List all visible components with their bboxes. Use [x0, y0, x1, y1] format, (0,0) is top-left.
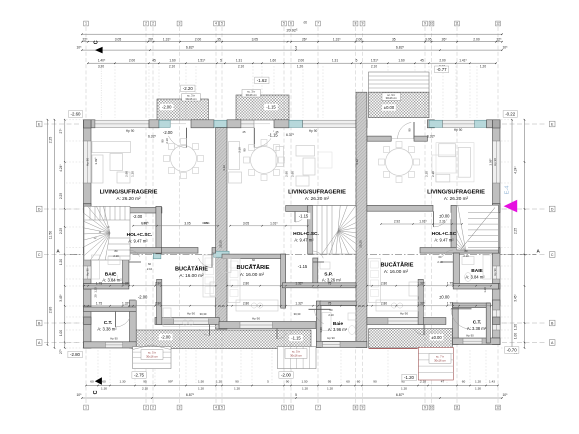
svg-text:1.20: 1.20	[234, 387, 240, 391]
svg-text:1.20: 1.20	[59, 259, 63, 265]
svg-text:2.80: 2.80	[243, 281, 249, 285]
svg-text:2.10: 2.10	[113, 254, 119, 258]
svg-text:1.60: 1.60	[398, 58, 404, 62]
svg-text:A: 16.00 m²: A: 16.00 m²	[240, 272, 265, 277]
svg-text:1.31⁵: 1.31⁵	[163, 37, 171, 41]
dim row low U1	[84, 305, 216, 307]
svg-text:1.31: 1.31	[236, 58, 242, 62]
svg-text:2.10: 2.10	[420, 380, 426, 384]
svg-text:1.01⁵: 1.01⁵	[270, 221, 278, 225]
door terrace U1 kitchen	[209, 325, 211, 336]
svg-text:1.20: 1.20	[319, 327, 323, 333]
svg-text:30x16 cm: 30x16 cm	[246, 93, 257, 97]
svg-text:-2.00: -2.00	[162, 105, 172, 110]
svg-text:2.25: 2.25	[59, 193, 63, 199]
svg-text:25,25: 25,25	[218, 240, 222, 248]
svg-text:11: 11	[455, 22, 459, 26]
svg-text:C: C	[93, 40, 99, 44]
recessed entry wall U3	[367, 136, 391, 141]
svg-text:75: 75	[328, 301, 332, 305]
svg-text:6: 6	[290, 22, 292, 26]
svg-text:A: 3.84 m²: A: 3.84 m²	[465, 274, 485, 279]
teal PW2 bottom	[357, 321, 363, 326]
svg-text:-1.15: -1.15	[299, 214, 309, 219]
svg-text:E-4: E-4	[505, 186, 511, 195]
svg-text:10: 10	[430, 22, 434, 26]
CT annex U3: top wall	[453, 303, 491, 308]
baie annex U2: top wall	[320, 301, 356, 305]
teal sill U2	[289, 120, 303, 127]
kitchen wall counter U3	[369, 259, 381, 303]
svg-text:-2.75: -2.75	[134, 373, 145, 378]
svg-text:26⁵: 26⁵	[302, 37, 308, 41]
svg-text:-2.60: -2.60	[70, 112, 81, 117]
svg-text:HOL+C.SC: HOL+C.SC	[432, 231, 457, 237]
svg-text:5: 5	[221, 22, 223, 26]
svg-text:6: 6	[290, 406, 292, 410]
svg-text:±0.00: ±0.00	[439, 295, 450, 300]
svg-text:80: 80	[465, 249, 468, 253]
svg-text:2.10: 2.10	[169, 65, 175, 69]
svg-text:8: 8	[355, 406, 357, 410]
svg-text:27⁵: 27⁵	[59, 128, 63, 134]
svg-text:2.80: 2.80	[49, 307, 53, 314]
dining U1	[171, 146, 197, 172]
svg-text:25: 25	[243, 130, 246, 134]
svg-text:35: 35	[392, 37, 396, 41]
svg-text:-2.00: -2.00	[161, 335, 171, 340]
top dim row 2	[82, 41, 502, 43]
entry stair bottom U1	[133, 347, 171, 369]
svg-text:6.82⁵: 6.82⁵	[396, 45, 405, 49]
U2 sill wall hol	[286, 206, 356, 212]
svg-text:1.60: 1.60	[270, 58, 276, 62]
svg-text:2.00: 2.00	[298, 58, 304, 62]
window bottom U1	[174, 318, 209, 324]
svg-text:60: 60	[102, 380, 106, 384]
svg-text:1.30: 1.30	[475, 387, 481, 391]
section marker C bottom	[95, 377, 102, 385]
svg-text:2.00: 2.00	[473, 37, 480, 41]
door kitchen U2	[313, 261, 324, 263]
svg-text:2: 2	[152, 22, 154, 26]
stair note terrace2	[242, 90, 261, 98]
CT U3 inner wall	[486, 303, 490, 343]
kitchen counter U3	[376, 300, 418, 311]
svg-text:Hp 90: Hp 90	[86, 158, 90, 166]
svg-text:4.12: 4.12	[355, 159, 359, 165]
E-4 marker magenta triangle	[504, 200, 518, 213]
CT annex U1: bottom wall	[84, 342, 137, 348]
svg-text:1.75: 1.75	[447, 301, 453, 305]
svg-text:5: 5	[295, 393, 297, 397]
svg-text:7: 7	[317, 22, 319, 26]
svg-text:Hp 90: Hp 90	[187, 312, 195, 316]
U1 wall hol/bath+kitchen	[84, 248, 162, 254]
door bath U1	[129, 261, 141, 263]
door terrace U3	[423, 325, 425, 336]
svg-text:95: 95	[328, 380, 332, 384]
wall block U1-PW1	[191, 120, 214, 128]
svg-text:Hp 90: Hp 90	[493, 268, 497, 276]
svg-text:99⁵: 99⁵	[168, 380, 173, 384]
svg-text:3: 3	[179, 22, 181, 26]
fixed glass U2	[241, 120, 254, 127]
svg-text:3.05: 3.05	[425, 37, 432, 41]
bath U3 fixtures	[483, 255, 491, 279]
svg-text:11: 11	[455, 406, 459, 410]
svg-text:60: 60	[462, 380, 466, 384]
svg-text:1.30: 1.30	[119, 380, 125, 384]
svg-text:1.50: 1.50	[198, 380, 204, 384]
svg-text:1.51⁵: 1.51⁵	[371, 58, 379, 62]
svg-text:1.50: 1.50	[301, 380, 307, 384]
svg-text:26⁵: 26⁵	[442, 37, 448, 41]
svg-text:10⁵: 10⁵	[502, 45, 508, 49]
svg-text:1.00: 1.00	[59, 330, 63, 336]
svg-text:20: 20	[94, 294, 98, 297]
sofa group U2	[229, 142, 240, 170]
svg-text:A: 16.00 m²: A: 16.00 m²	[179, 273, 204, 278]
svg-text:4: 4	[215, 22, 217, 26]
entry door U3	[413, 122, 415, 139]
U2 stair left wall	[308, 206, 313, 255]
svg-text:A: 3.26 m²: A: 3.26 m²	[322, 278, 342, 283]
dim row mid U2	[227, 285, 356, 287]
svg-text:1.40⁵: 1.40⁵	[98, 58, 106, 62]
svg-text:3.05: 3.05	[243, 221, 249, 225]
svg-text:±0.00: ±0.00	[384, 105, 395, 110]
sofa right U2	[296, 146, 315, 157]
svg-text:35: 35	[217, 37, 221, 41]
svg-text:sc. 5 tr: sc. 5 tr	[148, 351, 156, 355]
dim row hol U1	[133, 225, 218, 227]
bottom wall U2	[219, 322, 316, 329]
svg-text:Hp 90: Hp 90	[493, 158, 497, 166]
svg-text:1.51⁵: 1.51⁵	[198, 58, 206, 62]
svg-text:7: 7	[317, 406, 319, 410]
svg-text:1.60: 1.60	[169, 58, 175, 62]
svg-text:30x16 cm: 30x16 cm	[146, 355, 158, 359]
party wall 1	[216, 128, 227, 329]
extension lines bottom band	[97, 350, 99, 383]
svg-text:1.20: 1.20	[475, 380, 481, 384]
svg-text:90: 90	[161, 139, 165, 142]
right exterior wall	[493, 120, 501, 209]
svg-text:A: 3.38 m²: A: 3.38 m²	[97, 326, 117, 331]
svg-text:LIVING/SUFRAGERIE: LIVING/SUFRAGERIE	[100, 189, 158, 195]
svg-text:LIVING/SUFRAGERIE: LIVING/SUFRAGERIE	[288, 189, 346, 195]
svg-text:60: 60	[252, 258, 255, 262]
svg-text:8: 8	[355, 22, 357, 26]
svg-text:A: 3.84 m²: A: 3.84 m²	[102, 278, 122, 283]
door terrace U2	[276, 329, 278, 340]
svg-text:60: 60	[346, 380, 350, 384]
svg-text:95: 95	[143, 380, 147, 384]
svg-text:90: 90	[286, 380, 290, 384]
svg-text:BUCĂTĂRIE: BUCĂTĂRIE	[175, 266, 208, 273]
svg-text:-0.70: -0.70	[507, 348, 518, 353]
svg-text:1.20: 1.20	[216, 380, 222, 384]
stair note entry3	[382, 93, 401, 101]
svg-text:90: 90	[373, 380, 377, 384]
svg-text:Hp 90: Hp 90	[86, 268, 90, 276]
svg-text:2.20: 2.20	[425, 171, 429, 177]
extension lines right band	[501, 119, 511, 121]
U3 bath bottom wall	[453, 284, 498, 290]
dim row mid U3	[367, 285, 491, 287]
grid bubbles bottom	[84, 405, 89, 410]
window left bath U1	[84, 266, 91, 279]
svg-text:2.10: 2.10	[328, 313, 334, 317]
entry stair bottom U2	[278, 347, 317, 369]
right dim columns	[511, 120, 513, 348]
svg-text:-1.15: -1.15	[266, 105, 276, 110]
svg-text:2.90: 2.90	[291, 171, 295, 177]
teal sill U1	[159, 120, 170, 127]
door hol U2	[294, 212, 296, 223]
CT annex U1: top wall	[84, 307, 137, 312]
U1 vertical wall hol	[156, 206, 162, 254]
svg-text:C: C	[93, 390, 99, 394]
door kitchen U1	[211, 253, 213, 267]
svg-text:HOL+C.SC.: HOL+C.SC.	[293, 231, 319, 237]
svg-text:A: 16.00 m²: A: 16.00 m²	[384, 269, 409, 274]
window bottom U3	[388, 318, 420, 324]
kitchen counter U2	[236, 300, 278, 311]
svg-text:D: D	[38, 207, 41, 211]
svg-text:6.87⁵: 6.87⁵	[186, 393, 195, 397]
svg-text:10⁵: 10⁵	[76, 393, 82, 397]
door terrace U2	[254, 123, 270, 125]
svg-text:1.75: 1.75	[96, 301, 102, 305]
door terrace U1	[170, 123, 186, 125]
left dim columns	[47, 120, 49, 345]
svg-text:-2.80: -2.80	[70, 352, 81, 357]
svg-text:30,30: 30,30	[294, 312, 301, 316]
svg-text:C: C	[38, 253, 41, 257]
svg-text:A: 9.47 m²: A: 9.47 m²	[434, 238, 454, 243]
svg-text:30x16 cm: 30x16 cm	[185, 97, 196, 101]
svg-text:2.31: 2.31	[439, 220, 445, 224]
svg-text:1.20: 1.20	[198, 387, 204, 391]
svg-text:1.20: 1.20	[297, 65, 303, 69]
svg-text:5: 5	[356, 58, 358, 62]
svg-text:2.00: 2.00	[439, 58, 445, 62]
svg-text:A: 26.20 m²: A: 26.20 m²	[305, 196, 330, 201]
svg-text:5: 5	[295, 45, 297, 49]
svg-text:10: 10	[430, 406, 434, 410]
svg-text:1.75: 1.75	[447, 281, 453, 285]
dining U2	[251, 147, 278, 174]
svg-text:2.20: 2.20	[431, 171, 435, 177]
corner hatch blocks	[84, 120, 92, 128]
left exterior wall	[84, 120, 92, 209]
svg-text:5: 5	[267, 380, 269, 384]
svg-text:2.80: 2.80	[155, 281, 161, 285]
svg-text:3: 3	[179, 406, 181, 410]
rug U2	[318, 152, 332, 168]
svg-text:HOL+C.SC.: HOL+C.SC.	[127, 232, 153, 238]
svg-text:6.87⁵: 6.87⁵	[396, 393, 405, 397]
svg-text:-2.00: -2.00	[163, 130, 173, 135]
svg-text:-2.20: -2.20	[183, 86, 194, 91]
svg-text:A: 9.47 m²: A: 9.47 m²	[128, 238, 148, 243]
svg-text:25,25: 25,25	[218, 304, 225, 308]
kitchen wall counter U1	[203, 255, 216, 297]
CT annex U1: right wall	[130, 300, 137, 348]
door CT U3 top	[451, 308, 472, 310]
svg-text:20.92⁵: 20.92⁵	[286, 28, 298, 32]
svg-text:LIVING/SUFRAGERIE: LIVING/SUFRAGERIE	[427, 189, 485, 195]
svg-text:-0.22: -0.22	[505, 112, 516, 117]
svg-text:1.20: 1.20	[94, 287, 98, 293]
svg-text:12: 12	[496, 22, 500, 26]
svg-text:25: 25	[276, 130, 279, 134]
svg-text:3.05: 3.05	[252, 37, 259, 41]
svg-text:1.30: 1.30	[101, 387, 107, 391]
svg-text:2.80: 2.80	[381, 281, 387, 285]
baie annex U2: bottom wall	[316, 341, 367, 347]
U1 kitchen left wall	[157, 279, 162, 324]
svg-text:Hp 90: Hp 90	[126, 129, 135, 133]
svg-text:-0.77: -0.77	[437, 67, 448, 72]
elevation labels plain	[160, 104, 174, 110]
svg-text:60: 60	[90, 380, 94, 384]
CT annex U3: left wall	[453, 303, 459, 345]
svg-text:6.32⁵: 6.32⁵	[148, 134, 157, 138]
terrace bottom unit3 crosshatch	[369, 329, 453, 348]
baie annex U2: left wall	[316, 301, 321, 348]
svg-text:2.00: 2.00	[356, 37, 363, 41]
svg-text:26⁵: 26⁵	[148, 37, 154, 41]
stair note terrace1	[182, 94, 201, 102]
svg-text:2: 2	[145, 406, 147, 410]
dim row hol U3	[381, 223, 462, 225]
rug U3	[432, 155, 456, 173]
top dim row 3	[82, 49, 502, 51]
svg-text:-2.00: -2.00	[138, 295, 148, 300]
svg-text:1.32⁵: 1.32⁵	[417, 301, 425, 305]
svg-text:C: C	[551, 253, 554, 257]
svg-text:A: 3.96 m²: A: 3.96 m²	[328, 327, 348, 332]
entry landing top unit3 crosshatch	[369, 92, 430, 117]
svg-text:BAIE: BAIE	[105, 271, 117, 277]
U1 bath right wall	[123, 253, 129, 286]
svg-text:1.20: 1.20	[131, 171, 135, 177]
svg-text:A: 3.38 m²: A: 3.38 m²	[467, 326, 487, 331]
svg-text:1.32⁵: 1.32⁵	[122, 301, 130, 305]
U1 wall living/hol	[91, 208, 162, 214]
svg-text:3.09⁵: 3.09⁵	[489, 158, 493, 166]
svg-text:1.20: 1.20	[302, 387, 308, 391]
dim row low U2	[227, 305, 356, 307]
svg-text:1.32⁵: 1.32⁵	[295, 281, 303, 285]
U3 wall hol/bath	[420, 248, 498, 254]
svg-text:9: 9	[362, 22, 364, 26]
svg-text:45: 45	[152, 58, 156, 62]
window top U3 Hp90	[443, 120, 475, 127]
svg-text:4.24⁵: 4.24⁵	[59, 164, 63, 172]
svg-text:22⁵: 22⁵	[496, 37, 502, 41]
door bath U3	[441, 261, 453, 263]
top dim row 4 detailed	[88, 62, 496, 64]
svg-text:2.10: 2.10	[371, 65, 377, 69]
svg-text:25,25: 25,25	[358, 240, 362, 248]
door CT U3 arc	[451, 309, 472, 330]
svg-text:30x16 cm: 30x16 cm	[290, 354, 302, 358]
SP U2 fixtures	[320, 262, 330, 269]
svg-text:2.10: 2.10	[463, 254, 469, 258]
terrace top unit2 crosshatch	[236, 95, 289, 120]
svg-text:1.20: 1.20	[483, 287, 487, 293]
svg-text:2.10: 2.10	[238, 147, 242, 153]
door CT U1	[115, 312, 117, 328]
svg-text:60: 60	[439, 255, 442, 259]
baie annex U2 fixtures	[322, 313, 331, 331]
svg-text:60: 60	[330, 308, 333, 312]
svg-text:d6: d6	[304, 21, 308, 25]
svg-text:3.09⁵: 3.09⁵	[94, 157, 98, 165]
window right bath U3	[493, 266, 500, 279]
svg-text:90: 90	[235, 380, 239, 384]
svg-text:2.10: 2.10	[165, 138, 169, 144]
svg-text:BAIE: BAIE	[471, 268, 483, 274]
bottom dim row 2	[82, 397, 502, 399]
svg-text:6.82⁵: 6.82⁵	[186, 45, 195, 49]
window top U1 Hp90	[95, 120, 149, 127]
teal sill U3b	[475, 120, 487, 127]
svg-text:-1.15: -1.15	[291, 336, 301, 341]
svg-text:9: 9	[362, 406, 364, 410]
door hol U3 entrance inner	[433, 211, 435, 227]
svg-text:2.25: 2.25	[514, 228, 518, 234]
svg-text:Hp 90: Hp 90	[110, 337, 118, 341]
corner U3	[427, 120, 434, 128]
svg-text:-1.15: -1.15	[298, 264, 308, 269]
party wall 2	[356, 92, 367, 347]
svg-text:sc. 7 tr: sc. 7 tr	[436, 354, 444, 358]
svg-text:12: 12	[496, 406, 500, 410]
svg-text:2.00: 2.00	[195, 37, 202, 41]
svg-text:30x16 cm: 30x16 cm	[434, 358, 446, 362]
CT annex U3: bottom wall	[453, 338, 500, 345]
svg-text:2.25: 2.25	[59, 228, 63, 234]
svg-text:25,25: 25,25	[358, 304, 365, 308]
svg-text:4.24⁵: 4.24⁵	[514, 166, 518, 174]
svg-text:S.P.: S.P.	[324, 271, 333, 277]
svg-text:10⁵: 10⁵	[76, 45, 82, 49]
wall block	[149, 120, 159, 128]
section marker C top	[95, 47, 103, 54]
svg-text:2.10: 2.10	[238, 65, 244, 69]
svg-text:3.05: 3.05	[184, 221, 190, 225]
dining U3	[386, 149, 413, 176]
section line A-A	[70, 254, 536, 256]
U3 stair right wall	[451, 205, 457, 250]
U2 SP walls	[313, 258, 318, 288]
kitchen wall counter U2	[228, 259, 240, 303]
svg-text:90: 90	[408, 128, 412, 131]
svg-text:1.20: 1.20	[514, 324, 518, 330]
svg-text:A: 26.20 m²: A: 26.20 m²	[444, 196, 469, 201]
entry stair top unit3	[369, 72, 430, 92]
svg-text:9: 9	[424, 406, 426, 410]
svg-text:-2.00: -2.00	[281, 373, 292, 378]
svg-text:80: 80	[115, 249, 118, 253]
svg-text:90: 90	[243, 148, 247, 151]
svg-text:1.43: 1.43	[489, 380, 495, 384]
